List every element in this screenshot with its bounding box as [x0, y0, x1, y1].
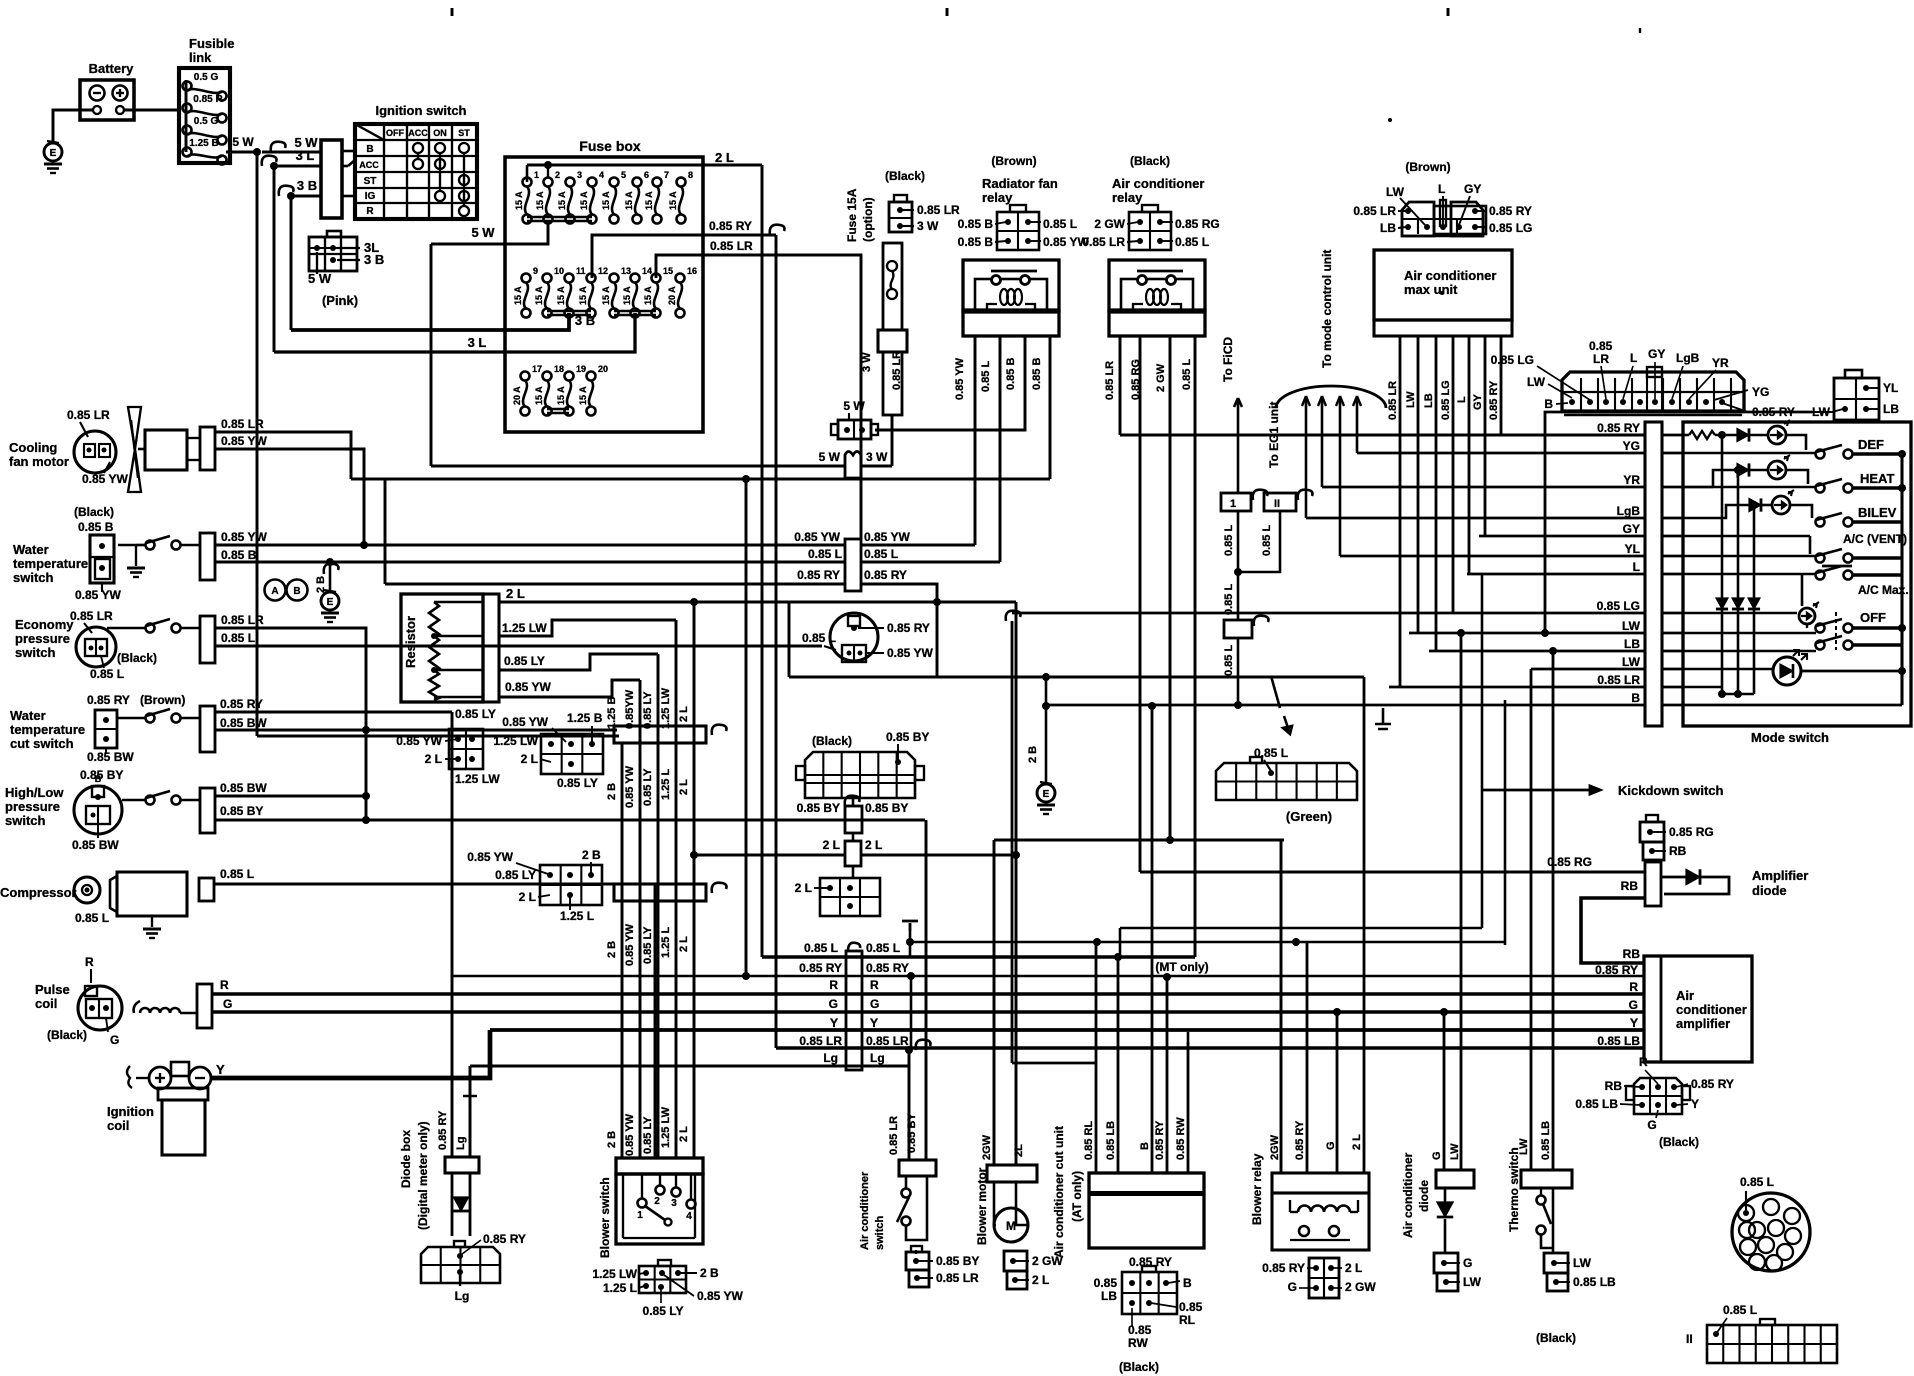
ground T symbol x910	[902, 921, 918, 931]
ground E2	[321, 592, 339, 610]
svg-text:0.85 B: 0.85 B	[1005, 358, 1017, 390]
svg-text:3 W: 3 W	[866, 450, 888, 464]
wire 0.85LR eps run	[215, 628, 366, 820]
svg-text:1.25 LW: 1.25 LW	[493, 734, 538, 748]
fuse box top bus	[526, 165, 529, 182]
svg-text:0.85 BW: 0.85 BW	[220, 781, 267, 795]
fuse 20	[587, 372, 596, 381]
svg-text:switch: switch	[874, 1215, 886, 1250]
svg-text:0.5 G: 0.5 G	[194, 72, 219, 83]
svg-text:0.85 YW: 0.85 YW	[887, 646, 933, 660]
wire 0.85YW cooling run	[215, 449, 364, 545]
wire LW to small connector	[1545, 412, 1812, 633]
svg-text:Air conditioner: Air conditioner	[1401, 1152, 1415, 1238]
svg-text:LW: LW	[1463, 1275, 1482, 1289]
svg-text:0.85 RY: 0.85 RY	[1691, 1077, 1734, 1091]
svg-text:Y: Y	[1630, 1016, 1638, 1030]
svg-text:0.85 RY: 0.85 RY	[1294, 1120, 1306, 1160]
wire vertical x1505	[1504, 700, 1507, 945]
node 5W	[253, 148, 261, 156]
svg-text:(Black): (Black)	[1130, 154, 1170, 168]
fusible element 0.5G 2	[183, 126, 192, 135]
svg-text:0.85 L: 0.85 L	[808, 547, 842, 561]
svg-text:0.85 RY: 0.85 RY	[799, 961, 842, 975]
switch eps	[146, 624, 155, 633]
svg-text:3 B: 3 B	[364, 252, 384, 267]
wire LW drop ac diode	[1460, 633, 1463, 1170]
air conditioner cut unit box	[1089, 1173, 1204, 1248]
fuse top feed	[547, 165, 549, 178]
economy pressure switch E1	[76, 627, 116, 667]
bus connector bar2	[614, 884, 706, 901]
svg-text:Lg: Lg	[455, 1289, 470, 1303]
arrow up 3	[1336, 396, 1344, 406]
fuse 7	[653, 178, 662, 187]
connector grid black 2x6	[805, 752, 915, 798]
svg-text:0.85 R: 0.85 R	[193, 94, 223, 105]
svg-text:LW: LW	[1573, 1256, 1592, 1270]
acsw contact 2	[902, 1217, 911, 1226]
connector acmax top	[1402, 202, 1434, 236]
svg-text:0.85 RY: 0.85 RY	[709, 219, 752, 233]
svg-text:YR: YR	[1712, 356, 1729, 370]
arrow To FiCD	[1234, 398, 1242, 458]
fuse 17	[521, 372, 530, 381]
svg-text:HEAT: HEAT	[1860, 471, 1894, 486]
svg-text:0.85 RY: 0.85 RY	[1597, 421, 1640, 435]
wire 0.85B relay drop2	[1049, 336, 1052, 479]
wire row y840 2GW	[994, 839, 1284, 842]
fuse 15	[652, 274, 661, 283]
svg-text:2GW: 2GW	[981, 1134, 993, 1160]
ignition coil body	[162, 1100, 205, 1155]
big circle pin	[1758, 1237, 1774, 1253]
wire row LW y633	[1409, 632, 1645, 635]
air conditioner relay RL2	[1109, 260, 1205, 311]
wire 5W horizontal run	[257, 735, 619, 738]
svg-text:ACC: ACC	[359, 160, 379, 170]
svg-text:LB: LB	[1380, 221, 1396, 235]
svg-text:5 W: 5 W	[471, 225, 495, 240]
wire 3L vertical drop	[273, 166, 276, 352]
svg-text:0.85YW: 0.85YW	[624, 689, 636, 729]
svg-text:0.85 L: 0.85 L	[221, 631, 255, 645]
svg-text:G: G	[1431, 1151, 1443, 1160]
svg-text:To FiCD: To FiCD	[1221, 337, 1235, 382]
connector acsw a	[906, 1252, 929, 1270]
ac diode D2	[1437, 1202, 1454, 1217]
svg-text:0.85 RY: 0.85 RY	[1262, 1261, 1305, 1275]
svg-text:LB: LB	[1101, 1289, 1117, 1303]
magnet clutch circle	[830, 613, 878, 661]
connector 0.85RG	[1640, 822, 1664, 842]
svg-text:0.85 L: 0.85 L	[1723, 1303, 1757, 1317]
svg-text:0.85 RY: 0.85 RY	[87, 693, 130, 707]
svg-text:0.85 LG: 0.85 LG	[1489, 221, 1532, 235]
svg-text:amplifier: amplifier	[1676, 1016, 1730, 1031]
diode box connector bar	[445, 1157, 479, 1173]
fusible element 0.5G	[183, 82, 192, 91]
wire row y562	[215, 561, 845, 564]
svg-text:2 L: 2 L	[823, 838, 840, 852]
connector inline wts	[200, 533, 215, 580]
svg-text:max unit: max unit	[1404, 282, 1458, 297]
svg-text:5 W: 5 W	[819, 450, 841, 464]
tick mark	[946, 8, 949, 16]
svg-text:0.85 LY: 0.85 LY	[495, 868, 536, 882]
svg-text:3 W: 3 W	[917, 219, 939, 233]
svg-text:(Black): (Black)	[1536, 1331, 1576, 1345]
diode box right leg	[469, 1173, 472, 1236]
connector grid 2x3 d	[820, 878, 880, 916]
fusible link FL1	[179, 68, 230, 163]
svg-text:0.85 LY: 0.85 LY	[642, 1116, 654, 1154]
svg-text:(MT only): (MT only)	[1155, 960, 1208, 974]
wire 0.85RG ac drop	[1139, 336, 1142, 872]
svg-text:pressure: pressure	[5, 799, 60, 814]
water temp cut switch connector	[95, 710, 117, 748]
wire 0.85BY drop to acsw	[925, 820, 928, 1160]
tick small	[1639, 28, 1641, 33]
wire G drop blower relay	[1336, 1012, 1339, 1173]
connector (Pink) grid	[309, 237, 357, 271]
svg-text:12: 12	[598, 266, 608, 276]
svg-text:0.85 L: 0.85 L	[1175, 235, 1209, 249]
svg-text:relay: relay	[982, 190, 1013, 205]
svg-text:L: L	[1633, 560, 1640, 574]
wire acmax drop 1	[1399, 336, 1402, 687]
svg-text:2 GW: 2 GW	[1155, 363, 1167, 392]
svg-text:1.25 B: 1.25 B	[606, 697, 618, 729]
svg-text:5 W: 5 W	[308, 271, 332, 286]
svg-text:G: G	[1647, 1118, 1656, 1132]
svg-text:cut switch: cut switch	[10, 736, 74, 751]
svg-text:R: R	[1639, 1055, 1648, 1069]
svg-text:2 L: 2 L	[678, 779, 690, 795]
svg-text:temperature: temperature	[13, 556, 88, 571]
svg-text:0.85 YW: 0.85 YW	[82, 472, 128, 486]
svg-text:G: G	[223, 997, 232, 1011]
ground wts	[127, 567, 145, 570]
connector grid acu 2x3	[1122, 1272, 1177, 1314]
connector inline wtcs	[200, 706, 215, 752]
svg-text:Resistor: Resistor	[403, 616, 418, 668]
svg-text:11: 11	[576, 266, 586, 276]
svg-text:Blower switch: Blower switch	[598, 1177, 612, 1258]
mode switch ACMax	[1816, 571, 1825, 580]
fuse 10	[543, 274, 552, 283]
svg-text:15 A: 15 A	[556, 286, 566, 305]
wire acmax drop 4	[1452, 336, 1455, 613]
ground E3	[1037, 784, 1055, 802]
connector rf relay 2x2	[997, 212, 1039, 250]
arrow up 2	[1318, 396, 1326, 406]
resistor zigzag 2	[429, 636, 439, 670]
wire L to ACMax switch	[1683, 573, 1816, 576]
compressor ground stem	[151, 916, 153, 927]
svg-text:High/Low: High/Low	[5, 785, 64, 800]
connector inline 2L	[845, 841, 861, 866]
svg-text:0.85 LG: 0.85 LG	[1440, 380, 1452, 420]
svg-text:4: 4	[599, 170, 604, 180]
wire 0.85L ac drop	[1194, 336, 1197, 957]
contact circle	[413, 143, 423, 153]
connector grid strip 2x8	[1707, 1325, 1837, 1363]
connector grid 2x3 bottom	[639, 1266, 686, 1293]
wire 0.85RW drop acu	[1187, 1042, 1190, 1173]
wire 2GW ac drop	[1169, 336, 1172, 840]
svg-text:LW: LW	[1449, 1143, 1461, 1160]
svg-text:0.85 YW: 0.85 YW	[221, 530, 267, 544]
ignition coil post	[171, 1062, 189, 1076]
svg-text:To EG1 unit: To EG1 unit	[1267, 402, 1281, 468]
connector bm a	[1004, 1251, 1027, 1271]
tick mark	[1447, 8, 1450, 16]
svg-text:RL: RL	[1179, 1313, 1195, 1327]
svg-text:Air conditioner: Air conditioner	[1404, 268, 1496, 283]
svg-text:5 W: 5 W	[232, 135, 254, 149]
wire 0.85LR cooling run	[215, 432, 351, 479]
svg-text:2 B: 2 B	[582, 848, 601, 862]
svg-text:2 L: 2 L	[1032, 1273, 1049, 1287]
svg-text:0.85 LR: 0.85 LR	[1353, 204, 1396, 218]
svg-text:5 W: 5 W	[843, 399, 865, 413]
svg-text:13: 13	[621, 266, 631, 276]
big circle pin	[1763, 1199, 1779, 1215]
svg-text:5: 5	[621, 170, 626, 180]
svg-text:switch: switch	[5, 813, 46, 828]
svg-text:0.85 RG: 0.85 RG	[1175, 217, 1220, 231]
wire row B y705	[1046, 704, 1645, 707]
svg-text:switch: switch	[13, 570, 54, 585]
wire row y584	[385, 583, 845, 586]
svg-text:G: G	[1325, 1141, 1337, 1150]
svg-text:0.85 LR: 0.85 LR	[866, 1034, 909, 1048]
bsw contact 3	[672, 1188, 681, 1197]
blower relay box	[1272, 1193, 1369, 1250]
svg-text:GY: GY	[1464, 182, 1481, 196]
svg-text:0.85 LR: 0.85 LR	[1387, 381, 1399, 420]
wire 5W out	[226, 151, 257, 154]
mode switch OFF1	[1816, 624, 1825, 633]
svg-text:Diode box: Diode box	[399, 1130, 413, 1188]
wire Y thick run	[211, 1030, 490, 1078]
svg-text:BILEV: BILEV	[1858, 505, 1897, 520]
svg-text:0.85 LR: 0.85 LR	[936, 1271, 979, 1285]
svg-text:(Black): (Black)	[1119, 1360, 1159, 1374]
ignition coil cap	[158, 1088, 208, 1100]
mode right bus	[1900, 454, 1903, 705]
svg-text:0.85 BY: 0.85 BY	[936, 1254, 979, 1268]
svg-text:YG: YG	[1752, 385, 1769, 399]
svg-text:0.85 L: 0.85 L	[1740, 1175, 1774, 1189]
connector 1 box	[1221, 493, 1251, 511]
svg-text:3: 3	[577, 170, 582, 180]
high low pressure switch H1	[74, 786, 122, 834]
svg-text:Fusible: Fusible	[189, 36, 235, 51]
connector small tab	[1845, 370, 1862, 378]
wire B row in	[1683, 704, 1902, 707]
svg-text:0.85 BY: 0.85 BY	[80, 768, 123, 782]
wire row 0.85RG y872	[1140, 871, 1644, 874]
svg-text:GY: GY	[1623, 522, 1640, 536]
wire 0.85LB drop acu	[1117, 957, 1120, 1173]
fusible element 1.25B	[183, 148, 192, 157]
mode lamp 3	[1772, 496, 1790, 514]
wire acmax drop 7	[1500, 336, 1503, 435]
svg-text:4: 4	[686, 1211, 692, 1222]
wire to ignition ACC	[348, 160, 355, 166]
svg-text:Y: Y	[1691, 1097, 1699, 1111]
svg-text:0.85 RY: 0.85 RY	[1154, 1120, 1166, 1160]
connector grid black amp 2x3	[1634, 1078, 1682, 1114]
svg-text:Air conditioner: Air conditioner	[859, 1171, 871, 1250]
svg-text:Y: Y	[870, 1016, 878, 1030]
fuse 14	[631, 274, 640, 283]
svg-text:0.85 LR: 0.85 LR	[221, 417, 264, 431]
wire row YR y487	[1322, 486, 1645, 489]
wire 2GW blower motor	[993, 840, 996, 1165]
wire 0.85YW tap	[499, 680, 640, 697]
wire 0.85LR from fuse 15	[656, 255, 861, 539]
wire 0.85LY tap	[499, 654, 658, 670]
wire row G long	[212, 1010, 1644, 1014]
fuse15 connector	[889, 202, 912, 232]
svg-text:0.85 LY: 0.85 LY	[504, 654, 545, 668]
svg-text:(Brown): (Brown)	[140, 693, 185, 707]
svg-text:1: 1	[534, 170, 539, 180]
wire row y945	[910, 941, 1505, 944]
svg-text:15 A: 15 A	[644, 191, 654, 210]
svg-text:G: G	[829, 997, 838, 1011]
wire 2L out	[703, 164, 762, 167]
svg-text:(Green): (Green)	[1286, 809, 1332, 824]
green pin leader	[1264, 760, 1271, 771]
wire 2L vertical	[761, 165, 764, 957]
svg-text:(Black): (Black)	[47, 1028, 87, 1042]
svg-text:YL: YL	[1883, 381, 1898, 395]
mode triangle diode 2	[1732, 598, 1744, 609]
svg-text:0.85 LG: 0.85 LG	[1491, 353, 1534, 367]
hook 3L	[262, 156, 277, 166]
svg-text:GY: GY	[1648, 347, 1665, 361]
big circle pin	[1777, 1244, 1793, 1260]
svg-text:LgB: LgB	[1676, 351, 1700, 365]
wire row YG y453	[1357, 452, 1645, 455]
svg-text:0.85 RY: 0.85 RY	[437, 1110, 449, 1150]
svg-text:LB: LB	[1883, 402, 1899, 416]
wts ground stem	[135, 545, 137, 566]
wire row y562 right	[861, 561, 1000, 564]
big circle pin	[1784, 1208, 1800, 1224]
connector grid diode box 2x4	[421, 1247, 500, 1283]
acsw U wire	[906, 1176, 927, 1240]
svg-text:0.85 L: 0.85 L	[90, 667, 124, 681]
svg-text:II: II	[1274, 498, 1280, 510]
mode diode 1	[1737, 428, 1749, 441]
svg-text:Cooling: Cooling	[9, 440, 57, 455]
svg-text:pressure: pressure	[15, 631, 70, 646]
svg-text:0.85 LR: 0.85 LR	[891, 351, 903, 390]
svg-text:0.85 B: 0.85 B	[221, 548, 257, 562]
svg-text:0.85 RG: 0.85 RG	[1130, 359, 1142, 400]
svg-text:(Brown): (Brown)	[1405, 160, 1450, 174]
thermo switch bar	[1521, 1170, 1572, 1188]
svg-text:Lg: Lg	[455, 1137, 467, 1150]
svg-text:10: 10	[554, 266, 564, 276]
fuse 1	[523, 178, 532, 187]
brown key tab	[1647, 367, 1662, 377]
wire arrow1 to LgB	[1305, 398, 1308, 518]
wire line A left	[431, 465, 845, 468]
wire 0.85LB drop thermo	[1552, 651, 1555, 1170]
svg-text:(AT only): (AT only)	[1070, 1171, 1084, 1222]
wire 0.85YW rf drop	[974, 336, 977, 545]
svg-text:0.85 BW: 0.85 BW	[72, 838, 119, 852]
ground T symbol mid	[463, 1096, 477, 1108]
mode interior vertical 3	[1753, 505, 1756, 694]
fuse bus bar row1	[527, 216, 592, 219]
big circle pin	[1749, 1222, 1765, 1238]
svg-text:A: A	[271, 586, 278, 597]
wire kickdown vertical	[1481, 574, 1484, 928]
arc mode control	[1276, 386, 1386, 408]
wire row 2L y855 right	[861, 854, 1016, 857]
wire 2L drop blower relay	[1363, 677, 1366, 1173]
svg-text:To mode control unit: To mode control unit	[1320, 250, 1334, 368]
fuse 16	[676, 274, 685, 283]
mode switch HEAT	[1816, 484, 1825, 493]
wire row y677	[789, 676, 1364, 679]
compressor C1	[74, 877, 100, 903]
svg-text:3 B: 3 B	[297, 178, 317, 193]
svg-text:link: link	[189, 50, 212, 65]
mode switch DEF	[1816, 450, 1825, 459]
wire eg1 join	[1238, 511, 1280, 572]
wire battery to fusible link	[124, 109, 179, 112]
fuse 12	[587, 274, 596, 283]
connector inline hlps	[200, 788, 215, 833]
svg-text:RW: RW	[1128, 1336, 1148, 1350]
wire vertical x789	[788, 602, 791, 677]
svg-text:2 B: 2 B	[606, 1131, 618, 1148]
svg-text:0.85 RY: 0.85 RY	[1489, 204, 1532, 218]
wire arrow4 to YG	[1356, 398, 1359, 453]
svg-text:0.85 RY: 0.85 RY	[864, 568, 907, 582]
fuse 18	[543, 372, 552, 381]
svg-text:2 B: 2 B	[700, 1266, 719, 1280]
svg-text:0.85 L: 0.85 L	[75, 911, 109, 925]
svg-text:0.85: 0.85	[1094, 1276, 1118, 1290]
ground T symbol acu	[1181, 1030, 1195, 1044]
ground E1	[44, 143, 62, 161]
svg-text:18: 18	[554, 364, 564, 374]
fuse15 connector tab	[894, 195, 907, 202]
svg-text:1: 1	[637, 1210, 643, 1221]
wire 2L blower motor	[1015, 602, 1018, 1165]
svg-text:M: M	[1006, 1219, 1016, 1233]
svg-text:2 L: 2 L	[521, 752, 538, 766]
svg-text:YL: YL	[1625, 542, 1640, 556]
mode lamp 1	[1768, 426, 1786, 444]
bsw contact 2	[656, 1186, 665, 1195]
arrow up 4	[1353, 396, 1361, 406]
svg-text:0.85 YW: 0.85 YW	[794, 530, 840, 544]
bsw lever end	[665, 1219, 672, 1226]
svg-text:OFF: OFF	[386, 128, 404, 138]
svg-text:0.85 L: 0.85 L	[1043, 217, 1077, 231]
svg-text:(Black): (Black)	[74, 505, 114, 519]
